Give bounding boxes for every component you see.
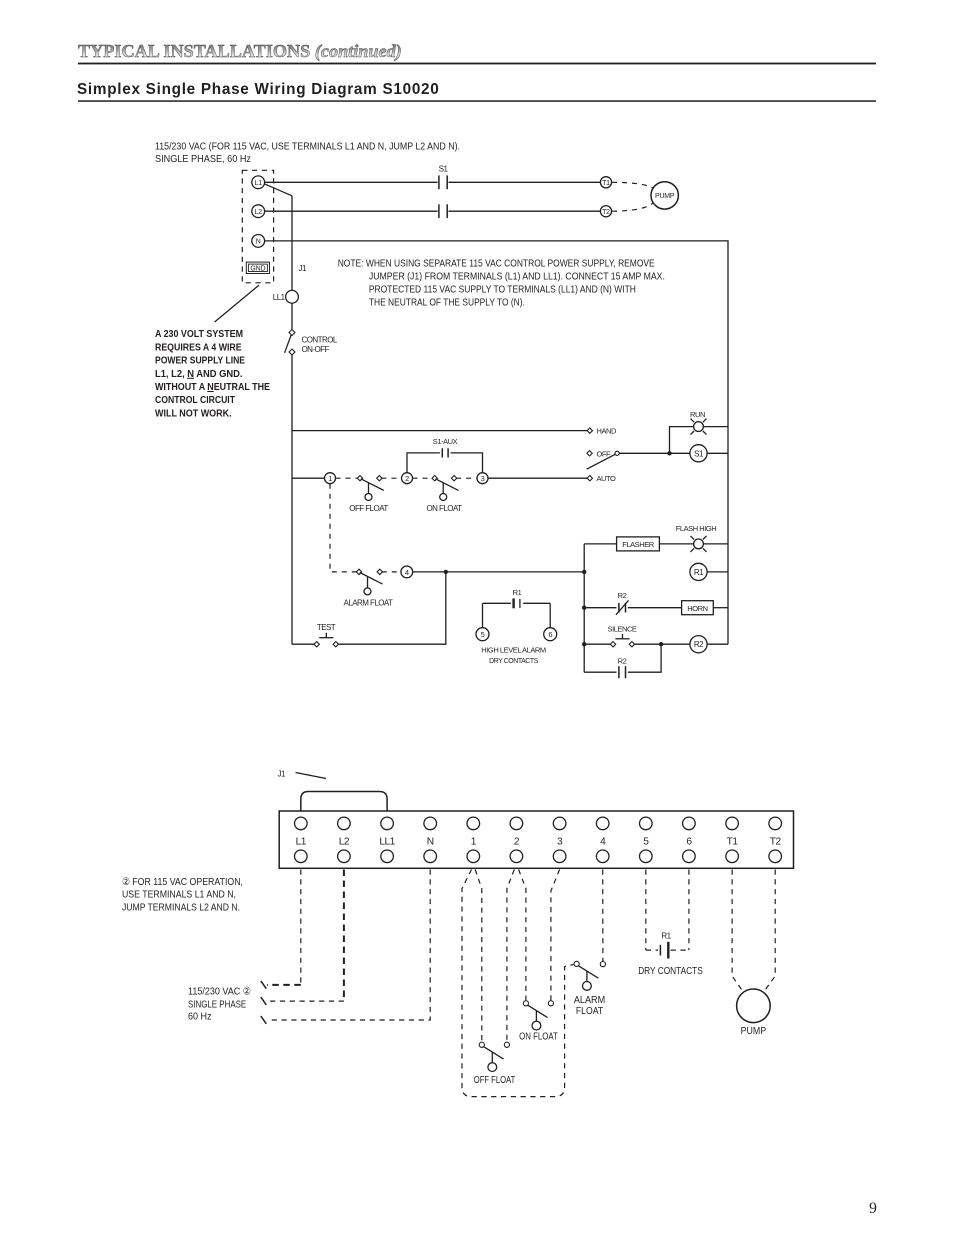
svg-text:2: 2 (514, 837, 520, 848)
terminal L2 (252, 205, 265, 218)
selector switch blade S1 HOA (587, 451, 620, 469)
wire LL1 to control switch (291, 303, 293, 330)
svg-text:J1: J1 (278, 770, 286, 779)
svg-text:L2: L2 (339, 837, 350, 848)
svg-text:CONTROL CIRCUIT: CONTROL CIRCUIT (155, 395, 236, 406)
svg-text:AUTO: AUTO (597, 474, 617, 483)
wire rail to test button (292, 643, 315, 645)
contact R2 normally open (618, 656, 627, 678)
warning text block 230 volt system (155, 329, 270, 419)
terminal T1 (600, 177, 611, 188)
indicator light FLASH HIGH (676, 524, 717, 552)
pump motor (651, 182, 678, 209)
dashed wire T2 to pump motor (612, 203, 654, 212)
junction test branch (444, 570, 448, 574)
svg-text:1: 1 (471, 837, 477, 848)
svg-text:THE NEUTRAL OF THE SUPPLY TO (: THE NEUTRAL OF THE SUPPLY TO (N). (369, 297, 525, 308)
header rule 1 (78, 63, 876, 65)
dashed wire alarm float to node 4 (382, 571, 401, 573)
terminal LL1 (273, 290, 299, 303)
horn module HORN (682, 601, 714, 615)
wire horn to right rail (713, 607, 728, 609)
terminal L1 (252, 176, 265, 189)
svg-text:ALARM FLOAT: ALARM FLOAT (344, 599, 394, 608)
svg-text:CONTROL: CONTROL (302, 336, 338, 345)
terminal strip screws row L1..T2 (295, 817, 782, 862)
field wire terminal 3 to on float (551, 870, 560, 1001)
note text block (338, 258, 665, 308)
flasher module FLASHER (617, 537, 660, 551)
node 1 (325, 473, 336, 484)
dashed enclosure around supply terminals (242, 170, 273, 282)
svg-text:TYPICAL INSTALLATIONS (continu: TYPICAL INSTALLATIONS (continued) (78, 41, 402, 62)
coil R2 (690, 636, 707, 653)
dashed wire T1 to pump motor (612, 182, 654, 188)
node 5 (476, 628, 489, 641)
svg-text:PUMP: PUMP (741, 1026, 767, 1037)
svg-text:GND: GND (250, 266, 265, 273)
svg-text:FLASH HIGH: FLASH HIGH (676, 524, 717, 533)
jumper J1 diagonal from L1 (264, 184, 292, 196)
neutral wire N to right rail (265, 241, 728, 644)
coil S1 (690, 445, 707, 462)
svg-text:WILL NOT WORK.: WILL NOT WORK. (155, 408, 232, 419)
svg-text:POWER SUPPLY LINE: POWER SUPPLY LINE (155, 356, 245, 367)
junction alarm rung (582, 570, 586, 574)
leader line from note text to GND enclosure (215, 285, 259, 322)
svg-text:S1: S1 (439, 165, 449, 174)
contact R2 normally closed (616, 591, 629, 615)
svg-text:R1: R1 (661, 931, 671, 940)
wire S1 pole 2 to T2 (449, 210, 601, 212)
wire J1 vertical (291, 196, 293, 291)
wire flasher rung (584, 543, 616, 545)
junction silence rung (582, 642, 586, 646)
wire test branch (338, 572, 446, 644)
dashed wire node1 to off float (336, 477, 359, 479)
svg-text:SINGLE PHASE: SINGLE PHASE (188, 999, 246, 1010)
svg-text:J1: J1 (299, 264, 307, 273)
svg-text:2: 2 (405, 474, 409, 483)
svg-text:RUN: RUN (690, 410, 705, 419)
wire HAND rung (292, 430, 588, 432)
pushbutton SILENCE (608, 625, 637, 647)
svg-text:DRY CONTACTS: DRY CONTACTS (489, 656, 538, 665)
switch ALARM FLOAT field (574, 961, 606, 1017)
wire L1 to S1 contact (265, 181, 438, 183)
left rail below control switch (291, 354, 293, 644)
switch ON FLOAT (426, 476, 462, 513)
field wire terminal 1 to off float (475, 870, 482, 1042)
contact S1 pole 2 (439, 204, 447, 218)
svg-text:TEST: TEST (317, 623, 336, 632)
jumper J1 on terminal strip (301, 792, 387, 818)
svg-text:6: 6 (548, 630, 552, 639)
svg-text:ALARM: ALARM (574, 995, 605, 1006)
label 115/230 vac single phase (188, 986, 251, 1022)
contact R1 dry contacts field side (638, 931, 703, 977)
node 2 (402, 473, 413, 484)
junction selector/RUN branch (667, 451, 671, 455)
wire L2 to S1 pole 2 (265, 210, 438, 212)
wire flash high to right rail (703, 543, 728, 545)
wire to node 6 (549, 603, 551, 627)
svg-text:FLOAT: FLOAT (576, 1006, 604, 1017)
terminal N (252, 235, 265, 248)
node AUTO (587, 474, 616, 483)
field wire L2 drop (261, 870, 344, 1005)
svg-text:SILENCE: SILENCE (608, 625, 637, 634)
terminal T2 (600, 206, 611, 217)
svg-text:ON FLOAT: ON FLOAT (519, 1032, 558, 1043)
svg-text:115/230 VAC (FOR 115 VAC, USE: 115/230 VAC (FOR 115 VAC, USE TERMINALS … (155, 141, 460, 152)
wire selector to S1 coil (619, 452, 690, 454)
svg-text:4: 4 (600, 837, 606, 848)
svg-text:SINGLE PHASE, 60 Hz: SINGLE PHASE, 60 Hz (155, 154, 251, 165)
node 4 (401, 566, 413, 578)
svg-text:L1: L1 (296, 837, 307, 848)
terminal GND (246, 262, 269, 273)
svg-text:FLASHER: FLASHER (622, 540, 654, 549)
field wire terminal 6 drop (688, 870, 690, 951)
wire horn rung left (584, 607, 616, 609)
field wire terminal 5 drop (645, 870, 647, 951)
field wire terminal 2 to on float (519, 870, 526, 1001)
junction horn rung (582, 606, 586, 610)
node 3 (477, 473, 488, 484)
dashed wire off float to node 2 (381, 477, 401, 479)
svg-text:OFF FLOAT: OFF FLOAT (349, 504, 388, 513)
svg-text:JUMPER (J1) FROM TERMINALS (L1: JUMPER (J1) FROM TERMINALS (L1) AND LL1)… (369, 271, 665, 282)
field wire terminal 4 to alarm float (602, 870, 604, 962)
wire seal-in up to silence rung (628, 646, 661, 672)
svg-text:HORN: HORN (687, 604, 707, 613)
svg-text:L1: L1 (255, 180, 263, 187)
svg-text:S1: S1 (694, 449, 704, 458)
wire S1 to T1 (449, 181, 601, 183)
junction R2 seal-in (659, 642, 663, 646)
svg-text:4: 4 (405, 568, 409, 577)
svg-text:5: 5 (643, 837, 649, 848)
field wire terminal 2 to off float (507, 870, 514, 1042)
wire to node 5 (482, 603, 484, 627)
svg-text:ON FLOAT: ON FLOAT (426, 504, 462, 513)
switch ALARM FLOAT (344, 569, 394, 607)
contact R1 dry output (483, 588, 551, 609)
indicator light RUN (690, 410, 706, 435)
svg-text:T1: T1 (727, 837, 739, 848)
svg-text:T1: T1 (602, 180, 610, 187)
header rule 2 (78, 100, 876, 102)
svg-text:R1: R1 (694, 568, 704, 577)
node OFF (587, 449, 611, 458)
dashed wire node2 to on float (413, 477, 433, 479)
svg-text:60 Hz: 60 Hz (188, 1012, 212, 1023)
wire flasher to light (659, 543, 693, 545)
field wire N drop (261, 870, 430, 1024)
contact S1 pole 1 (439, 165, 449, 190)
wire R1 coil to right rail (707, 571, 728, 573)
coil R1 (690, 563, 707, 580)
svg-text:HAND: HAND (597, 427, 617, 436)
svg-text:3: 3 (557, 837, 563, 848)
note 115 vac operation (122, 877, 243, 914)
field wire terminal 1 to alarm float common (462, 870, 574, 1097)
svg-text:R2: R2 (694, 640, 704, 649)
wire node 4 to flasher branch (413, 571, 585, 573)
svg-text:ON-OFF: ON-OFF (302, 345, 330, 354)
svg-text:JUMP TERMINALS L2 AND N.: JUMP TERMINALS L2 AND N. (122, 902, 240, 913)
svg-text:OFF FLOAT: OFF FLOAT (474, 1075, 516, 1086)
wire node 3 to AUTO (488, 477, 588, 479)
svg-text:LL1: LL1 (379, 837, 395, 848)
svg-text:PROTECTED 115 VAC SUPPLY TO TE: PROTECTED 115 VAC SUPPLY TO TERMINALS (L… (369, 284, 636, 295)
svg-text:② FOR 115 VAC OPERATION,: ② FOR 115 VAC OPERATION, (122, 877, 243, 888)
svg-text:PUMP: PUMP (655, 193, 675, 200)
svg-text:WITHOUT A NEUTRAL THE: WITHOUT A NEUTRAL THE (155, 382, 270, 393)
svg-text:1: 1 (328, 474, 332, 483)
svg-text:L2: L2 (255, 209, 263, 216)
wire rail to node 1 (292, 477, 325, 479)
svg-text:N: N (256, 239, 261, 246)
svg-text:9: 9 (869, 1200, 877, 1217)
svg-text:DRY CONTACTS: DRY CONTACTS (638, 966, 703, 977)
svg-text:HIGH LEVEL ALARM: HIGH LEVEL ALARM (481, 646, 546, 655)
field wire L1 drop (261, 870, 301, 989)
label high level alarm dry contacts (481, 646, 546, 666)
svg-text:REQUIRES A 4 WIRE: REQUIRES A 4 WIRE (155, 342, 242, 353)
dashed wire node1 down to alarm float (330, 484, 357, 572)
svg-text:N: N (427, 837, 434, 848)
page title TYPICAL INSTALLATIONS (continued) (78, 41, 402, 62)
svg-text:USE TERMINALS L1 AND N,: USE TERMINALS L1 AND N, (122, 890, 236, 901)
wire R2 coil to right rail (707, 643, 728, 645)
pump motor field (737, 989, 771, 1037)
wire S1 coil to right rail (707, 452, 728, 454)
svg-text:LL1: LL1 (273, 293, 286, 302)
svg-text:L1, L2, N AND GND.: L1, L2, N AND GND. (155, 369, 243, 380)
switch CONTROL ON-OFF (285, 330, 338, 355)
switch OFF FLOAT field (474, 1042, 516, 1086)
pushbutton TEST (314, 623, 338, 647)
node 6 (544, 628, 557, 641)
svg-text:R2: R2 (618, 656, 627, 665)
svg-text:T2: T2 (602, 209, 610, 216)
svg-text:S1-AUX: S1-AUX (433, 437, 458, 446)
wire branch up to RUN light (670, 427, 694, 454)
svg-text:R1: R1 (513, 588, 522, 597)
wire contact to horn (628, 607, 682, 609)
svg-text:3: 3 (481, 474, 485, 483)
dashed wire on float to node 3 (456, 477, 477, 479)
svg-text:5: 5 (481, 630, 485, 639)
svg-text:T2: T2 (770, 837, 782, 848)
wire silence to R2 coil (634, 643, 690, 645)
contact S1-AUX bridge (407, 437, 483, 473)
svg-text:6: 6 (686, 837, 692, 848)
svg-text:R2: R2 (618, 591, 627, 600)
caption: supply description (155, 141, 460, 165)
svg-text:Simplex Single Phase Wiring Di: Simplex Single Phase Wiring Diagram S100… (77, 81, 440, 98)
wire RUN to right rail (703, 426, 728, 428)
terminal strip body (279, 811, 793, 868)
field wire T1 to pump (732, 870, 742, 991)
wire R2 seal-in rung (584, 671, 616, 673)
node HAND (587, 427, 617, 436)
svg-text:A 230 VOLT SYSTEM: A 230 VOLT SYSTEM (155, 329, 243, 340)
wire silence rung left (584, 643, 611, 645)
switch OFF FLOAT (349, 476, 388, 513)
label J1 with leader (278, 770, 327, 779)
switch ON FLOAT field (519, 1001, 558, 1043)
svg-text:NOTE: WHEN USING SEPARATE 115: NOTE: WHEN USING SEPARATE 115 VAC CONTRO… (338, 258, 655, 269)
field wire T2 to pump (765, 870, 776, 991)
branch rail for alarm rungs (583, 544, 585, 672)
svg-text:115/230 VAC ②: 115/230 VAC ② (188, 986, 251, 997)
